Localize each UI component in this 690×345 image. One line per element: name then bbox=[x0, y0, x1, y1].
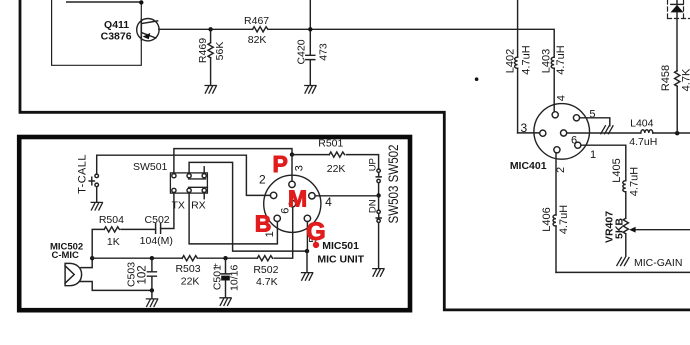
chassis ground (MIC401 pin 5) bbox=[601, 126, 613, 134]
svg-text:SW501: SW501 bbox=[133, 161, 168, 173]
svg-text:104(M): 104(M) bbox=[140, 235, 173, 247]
wire: audio node to R503 bbox=[92, 257, 182, 259]
potentiometer VR407 bbox=[604, 211, 690, 257]
svg-text:82K: 82K bbox=[248, 34, 267, 46]
capacitor C503 bbox=[125, 258, 156, 290]
node: junction pin 3 wire bbox=[290, 152, 294, 156]
resistor R502 bbox=[253, 256, 278, 288]
wire: L406 to right edge bbox=[556, 271, 690, 273]
svg-text:4: 4 bbox=[325, 195, 332, 209]
wire A: SW501 to MIC501 pin 3 junction bbox=[174, 149, 292, 174]
svg-text:22K: 22K bbox=[327, 163, 346, 175]
svg-text:MIC UNIT: MIC UNIT bbox=[317, 254, 364, 266]
svg-text:L405: L405 bbox=[611, 158, 623, 182]
svg-text:P: P bbox=[273, 151, 288, 177]
svg-text:102: 102 bbox=[137, 265, 149, 284]
wire: MIC502 return to C503 bbox=[80, 282, 152, 291]
dashed option box bbox=[668, 0, 690, 19]
svg-text:1: 1 bbox=[590, 149, 596, 161]
svg-text:R501: R501 bbox=[318, 137, 343, 149]
wire: MIC401 pin 5 to chassis ground bbox=[580, 118, 610, 126]
ground (T-CALL) bbox=[91, 202, 102, 210]
svg-text:RX: RX bbox=[191, 199, 206, 211]
wire: R502 to MIC501 pin 6 bbox=[274, 207, 292, 258]
svg-text:4.7uH: 4.7uH bbox=[629, 167, 641, 196]
svg-text:R504: R504 bbox=[99, 214, 124, 226]
node: junction C501 bbox=[223, 256, 227, 260]
wire: junction to R501 bbox=[292, 154, 329, 156]
resistor R469 bbox=[197, 29, 226, 85]
connector MIC401 bbox=[510, 95, 596, 173]
svg-text:56K: 56K bbox=[214, 42, 226, 61]
svg-text:2: 2 bbox=[259, 173, 266, 187]
svg-text:4.7uH: 4.7uH bbox=[558, 205, 570, 234]
svg-text:R467: R467 bbox=[244, 15, 269, 27]
svg-text:22K: 22K bbox=[181, 275, 200, 287]
svg-text:4.7uH: 4.7uH bbox=[555, 45, 567, 74]
svg-text:C501: C501 bbox=[211, 265, 223, 290]
wire: C503 junction to ground bbox=[151, 290, 153, 298]
switch SW502 UP bbox=[368, 158, 382, 195]
microphone MIC502 bbox=[50, 241, 83, 285]
svg-text:Q411: Q411 bbox=[104, 19, 129, 31]
svg-text:L402: L402 bbox=[505, 49, 517, 73]
wire: R503 to R502 bbox=[199, 257, 257, 259]
switch SW503 DN bbox=[368, 196, 382, 269]
svg-text:C-MIC: C-MIC bbox=[51, 250, 79, 261]
resistor R503 bbox=[175, 256, 200, 288]
svg-text:10/16: 10/16 bbox=[229, 265, 241, 291]
stray dot bbox=[475, 77, 479, 81]
svg-text:5KB: 5KB bbox=[613, 218, 625, 239]
wire: SW501 mid pin to MIC501 pin 5 line bbox=[189, 162, 307, 251]
svg-text:4.7K: 4.7K bbox=[256, 276, 278, 288]
svg-text:SW503 SW502: SW503 SW502 bbox=[386, 145, 401, 224]
svg-text:DN: DN bbox=[368, 199, 379, 213]
inductor L405 bbox=[611, 158, 641, 218]
node: junction C503 bbox=[150, 256, 154, 260]
resistor R504 bbox=[92, 214, 155, 258]
ground (C501) bbox=[220, 298, 231, 306]
svg-text:MIC501: MIC501 bbox=[322, 240, 359, 252]
svg-text:4: 4 bbox=[556, 95, 568, 101]
node: junction mic/R504 bbox=[90, 256, 94, 260]
svg-text:R503: R503 bbox=[175, 263, 200, 275]
Q411 collector box bbox=[52, 0, 142, 65]
svg-text:C420: C420 bbox=[296, 39, 308, 64]
svg-text:1K: 1K bbox=[107, 236, 120, 248]
wire: MIC501 pin 5 drop bbox=[306, 222, 308, 252]
resistor R467 bbox=[244, 15, 269, 46]
svg-text:L406: L406 bbox=[541, 207, 553, 231]
svg-text:4.7uH: 4.7uH bbox=[629, 136, 657, 148]
wire: T-CALL to ground bbox=[96, 187, 98, 202]
node: junction dot at Q-box corner bbox=[139, 0, 143, 4]
wire: MIC501 pin 4 to junction bbox=[315, 195, 379, 197]
svg-text:473: 473 bbox=[317, 43, 329, 61]
svg-text:3: 3 bbox=[294, 165, 306, 171]
node: junction R458 / mic line bbox=[675, 131, 679, 135]
node: junction pin 5 / ground bbox=[305, 249, 309, 253]
wire: junction to ground bbox=[306, 251, 308, 272]
svg-text:4.7K: 4.7K bbox=[681, 68, 690, 91]
svg-text:MIC-GAIN: MIC-GAIN bbox=[634, 257, 682, 269]
svg-text:L404: L404 bbox=[630, 117, 654, 129]
svg-text:C502: C502 bbox=[145, 214, 170, 226]
svg-text:UP: UP bbox=[368, 158, 379, 171]
capacitor C502 bbox=[140, 214, 173, 247]
node: junction at C420 bbox=[308, 27, 312, 31]
inductor L403 bbox=[541, 45, 567, 111]
inductor L406 bbox=[541, 205, 570, 273]
svg-text:B: B bbox=[255, 211, 272, 237]
wire: diode to R458 bbox=[676, 12, 678, 70]
capacitor C420 bbox=[296, 0, 330, 85]
ground (SW503) bbox=[373, 269, 384, 277]
MIC UNIT detail box (thick border) bbox=[19, 137, 410, 310]
wire: MIC401 pin 1 to L405 bbox=[581, 145, 626, 181]
chassis ground (MIC-GAIN) bbox=[617, 258, 629, 266]
connector MIC501 bbox=[259, 165, 332, 243]
svg-text:M: M bbox=[288, 185, 307, 211]
node: junction SW502/SW503/MIC501 pin 4 bbox=[376, 193, 380, 197]
inductor L404 bbox=[629, 117, 657, 148]
ground (C503) bbox=[146, 299, 157, 307]
switch T-CALL bbox=[77, 154, 99, 194]
wire: T-CALL to SW501 / MIC501 pin 2 bbox=[97, 155, 271, 195]
wire: junction to MIC501 pin 3 bbox=[291, 155, 293, 182]
wire: Q411 base line at top bbox=[67, 1, 142, 3]
node: junction at R469 bbox=[208, 27, 212, 31]
ground (C420) bbox=[305, 86, 316, 94]
svg-text:3: 3 bbox=[521, 121, 528, 135]
svg-text:6: 6 bbox=[571, 134, 577, 146]
svg-text:L403: L403 bbox=[541, 49, 553, 73]
wire: Q411 emitter to L403 audio line bbox=[159, 29, 554, 57]
wire: MIC401 pin 6 mic line to right edge bbox=[567, 132, 690, 134]
wire: MIC502 to audio node bbox=[81, 258, 92, 267]
svg-text:R502: R502 bbox=[253, 264, 278, 276]
svg-text:4.7uH: 4.7uH bbox=[521, 45, 533, 74]
svg-text:R469: R469 bbox=[197, 38, 209, 63]
wire: SW501 RX pin to MIC501 pin 1 bbox=[189, 193, 277, 244]
capacitor C501 (electrolytic) bbox=[211, 258, 240, 297]
wire: MIC401 pin 2 to L406 bbox=[555, 153, 557, 215]
wire: C502 to SW501 TX pin bbox=[161, 193, 174, 229]
svg-text:R458: R458 bbox=[660, 65, 672, 91]
diode D401 bbox=[671, 0, 684, 12]
svg-text:C3876: C3876 bbox=[101, 31, 132, 43]
wire: L402 to MIC401 pin 3 bbox=[518, 132, 540, 134]
resistor R458 bbox=[660, 65, 690, 133]
svg-text:MIC401: MIC401 bbox=[510, 160, 547, 172]
node: junction C503 / mic return bbox=[150, 288, 154, 292]
resistor R501 bbox=[318, 137, 378, 175]
inductor L402 bbox=[505, 0, 533, 133]
red mark dot bbox=[313, 242, 319, 248]
svg-text:5: 5 bbox=[589, 108, 595, 120]
transistor Q411 bbox=[101, 19, 159, 43]
switch SW501 bbox=[133, 161, 207, 199]
ground (R469) bbox=[205, 86, 216, 94]
svg-text:T-CALL: T-CALL bbox=[77, 154, 89, 194]
ground (MIC501 pin 5) bbox=[302, 273, 313, 281]
